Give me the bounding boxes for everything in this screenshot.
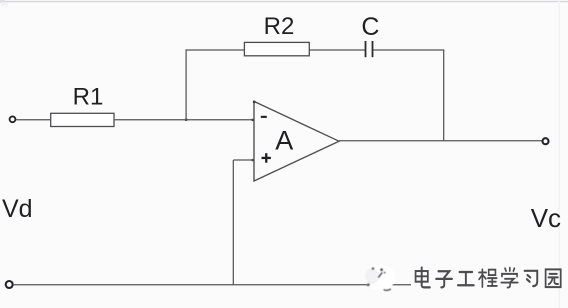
watermark text 电子工程学习园 [416, 268, 561, 288]
wire feedback vertical right (down to output) [443, 50, 445, 141]
resistor R1 [51, 113, 114, 126]
inverting input marker (minus) [261, 116, 267, 118]
input terminal (left, Vd) [10, 116, 16, 122]
resistor R2 [244, 42, 309, 55]
node inverting input at triangle [252, 119, 255, 121]
char 学 [501, 268, 517, 288]
svg-text:Vd: Vd [2, 195, 33, 223]
wire feedback vertical (junction up) [185, 49, 187, 119]
op-amp A (triangle) [254, 101, 339, 181]
char 子 [436, 271, 452, 287]
wire input terminal to R1 [16, 119, 51, 121]
svg-text:A: A [275, 126, 293, 156]
char 园 [546, 269, 561, 287]
non-inverting input marker (plus) [262, 153, 271, 163]
char 电 [416, 268, 430, 288]
node non-inverting input at triangle [252, 159, 255, 161]
wire bottom rail [13, 284, 411, 286]
char 工 [458, 272, 474, 285]
wire R2 to capacitor [309, 49, 364, 51]
char 习 [525, 271, 538, 286]
svg-text:R2: R2 [264, 13, 295, 40]
svg-text:Vc: Vc [531, 203, 561, 233]
svg-text:C: C [361, 13, 379, 41]
wire R1 to op-amp inverting input [114, 119, 254, 121]
char 程 [479, 269, 497, 287]
node feedback junction [185, 119, 187, 121]
watermark logo [365, 265, 396, 291]
output terminal (right, Vc) [543, 138, 549, 144]
wire output [339, 140, 542, 142]
wire non-inverting input [233, 159, 254, 161]
svg-text:R1: R1 [73, 84, 104, 111]
wire feedback horizontal to R2 [186, 49, 244, 51]
wire capacitor to right corner [373, 49, 444, 51]
wire non-inverting input down to bottom rail [232, 160, 234, 285]
bottom rail terminal (left) [6, 281, 13, 288]
capacitor C [366, 41, 373, 57]
